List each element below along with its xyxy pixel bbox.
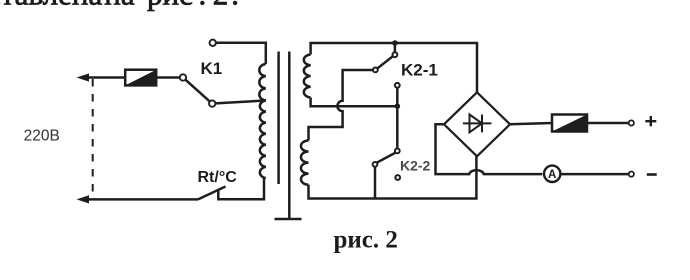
svg-text:K2-1: K2-1 [401, 61, 438, 80]
wire bridge to fuse FU2 [510, 123, 552, 124]
wire upper contact to primary top [216, 43, 266, 64]
wire bridge minus with hop over bottom rail riser [436, 124, 543, 174]
switch K2-2 blade [377, 153, 395, 163]
switch Rt contact and wire to primary [218, 178, 264, 199]
switch K2-1 moving contact circle [393, 52, 398, 57]
switch K2-1 pivot circle [373, 68, 378, 73]
svg-text:A: A [548, 169, 556, 181]
transformer core right line [288, 52, 291, 220]
arrow bottom-left (mains) [77, 195, 90, 203]
transformer secondary lower winding [301, 141, 309, 185]
transformer T1 primary winding [259, 64, 266, 178]
svg-text:рис. 2: рис. 2 [334, 227, 398, 254]
minus sign [647, 173, 657, 176]
switch K1 pivot circle [180, 74, 186, 80]
wire fuse to K1 [156, 76, 180, 79]
wire lower winding bottom lead / bottom rail to bridge [309, 156, 477, 198]
svg-text:2: 2 [213, 0, 229, 11]
switch K1 blade [186, 80, 210, 102]
transformer secondary upper winding [304, 55, 311, 98]
wire mains top [86, 76, 125, 79]
wire mains bottom [86, 198, 198, 201]
svg-text:.: . [231, 0, 239, 11]
svg-text:K2-2: K2-2 [400, 158, 431, 174]
switch Rt blade [198, 187, 226, 200]
switch K2-2 top contact circle [395, 149, 400, 154]
svg-text:220В: 220В [24, 128, 60, 145]
svg-text:ставлена: ставлена [0, 0, 102, 11]
switch K1 upper contact circle [210, 40, 216, 46]
fuse FU1 [125, 70, 156, 86]
svg-text:на: на [104, 0, 135, 11]
wire secondary upper bottom lead to K2 column [311, 98, 398, 107]
switch K2-1 lower contact circle [395, 83, 400, 88]
ground bar [275, 218, 302, 221]
junction dot at crossing [395, 103, 401, 109]
svg-text:.: . [199, 0, 207, 11]
bridge rectifier VD1 diamond [444, 92, 510, 156]
transformer core left line [277, 52, 280, 185]
junction dot on top rail [392, 40, 398, 46]
switch K1 moving contact circle [209, 100, 215, 106]
ammeter PA1 [544, 166, 560, 182]
wire K1 to primary tap [215, 101, 265, 104]
switch K2-2 open contact circle [395, 175, 400, 180]
top rail from secondary to bridge [311, 43, 477, 92]
diode symbol inside bridge [463, 115, 492, 133]
cropped paragraph text "...ставлена на рис. 2." [0, 0, 239, 11]
fuse FU2 [552, 115, 587, 132]
arrow top-left (mains) [77, 73, 90, 81]
plus terminal circle [629, 120, 634, 125]
wire lower winding top lead with hop over, to K2-1 pivot [309, 70, 373, 141]
svg-text:K1: K1 [201, 59, 223, 78]
svg-text:Rt/°C: Rt/°C [198, 169, 238, 186]
dashed mains line [92, 79, 94, 198]
wire ammeter to minus terminal [560, 173, 628, 176]
wire fuse to plus terminal [587, 122, 629, 125]
svg-text:рис: рис [147, 0, 193, 11]
wire K2-1 lower contact down to K2-2 [396, 88, 399, 148]
switch K2-1 blade [378, 56, 393, 68]
wire K2-2 pivot to bottom rail [374, 167, 377, 199]
switch K2-2 pivot circle [373, 162, 378, 167]
plus sign [645, 116, 656, 126]
stub moving contact to top rail [394, 44, 397, 52]
minus terminal circle [629, 172, 634, 177]
